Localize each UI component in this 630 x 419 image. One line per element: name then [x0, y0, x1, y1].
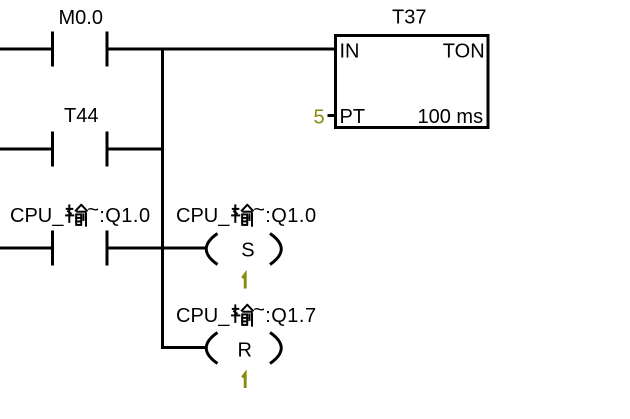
timer box T37 [336, 36, 489, 128]
svg-text:TON: TON [443, 40, 485, 62]
contact T44 left bar [51, 132, 54, 167]
label CPU_输~:Q1.7 reset coil [176, 299, 317, 327]
svg-text:CPU_: CPU_ [10, 205, 64, 227]
svg-text::Q1.0: :Q1.0 [265, 205, 316, 227]
wire branch to S coil [163, 247, 207, 250]
svg-text::Q1.0: :Q1.0 [99, 205, 150, 227]
coil R right paren [270, 333, 281, 364]
label CPU_输~:Q1.0 set coil [176, 199, 317, 227]
svg-text:PT: PT [340, 106, 366, 128]
wire rung3 to branch [107, 247, 164, 250]
contact Q1.0 right bar [106, 231, 109, 266]
branch vertical rail and elbow to R coil [163, 48, 207, 348]
label CPU_输~:Q1.0 rung3 [10, 199, 151, 227]
contact Q1.0 left bar [51, 231, 54, 266]
wire rung3 left stub [0, 247, 52, 250]
wire rung2 left stub [0, 148, 52, 151]
wire rung1 to timer [107, 48, 336, 51]
wire rung2 to branch [107, 148, 164, 151]
svg-text:~: ~ [253, 299, 265, 321]
contact M0.0 left bar [51, 32, 54, 67]
svg-text:CPU_: CPU_ [176, 205, 230, 227]
set count 1 [242, 274, 245, 288]
svg-text:5: 5 [314, 107, 325, 129]
PT value tick [328, 114, 336, 117]
svg-text:S: S [241, 240, 254, 262]
contact T44 right bar [106, 132, 109, 167]
svg-text:CPU_: CPU_ [176, 305, 230, 327]
svg-text:T44: T44 [64, 105, 98, 127]
coil S right paren [270, 234, 281, 265]
svg-text::Q1.7: :Q1.7 [265, 305, 316, 327]
contact M0.0 right bar [106, 32, 109, 67]
reset count 1 [242, 374, 245, 388]
svg-text:T37: T37 [392, 7, 426, 29]
svg-text:~: ~ [253, 199, 265, 221]
wire rung1 left stub [0, 48, 52, 51]
svg-text:100 ms: 100 ms [418, 106, 484, 128]
svg-text:~: ~ [87, 199, 99, 221]
coil S left paren [206, 234, 217, 265]
coil R left paren [206, 333, 217, 364]
svg-text:R: R [238, 340, 252, 362]
svg-text:IN: IN [340, 40, 360, 62]
svg-text:M0.0: M0.0 [59, 7, 103, 29]
